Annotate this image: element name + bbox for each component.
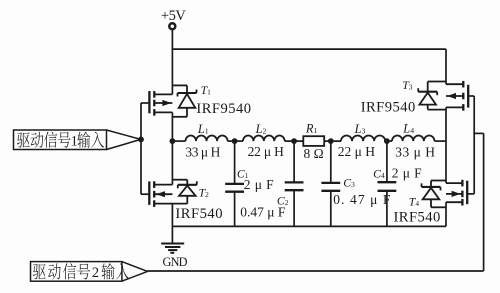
wire node to C1	[234, 141, 236, 184]
wire node to C3	[330, 141, 332, 183]
capacitor C4	[378, 181, 397, 183]
resistor R1	[303, 136, 324, 146]
wire T1 source down to node A	[171, 112, 173, 141]
junction C3 node	[328, 138, 334, 144]
wire T2 source down to ground	[171, 204, 173, 244]
wire gate bus right	[473, 96, 475, 194]
svg-text:22 μ H: 22 μ H	[338, 144, 375, 159]
svg-text:22 μ H: 22 μ H	[248, 144, 284, 159]
wire L4 to node B	[435, 140, 447, 142]
svg-text:IRF9540: IRF9540	[196, 101, 251, 117]
svg-text:2: 2	[92, 265, 99, 281]
wire T4 source down to bottom rail	[445, 202, 447, 226]
wire L3 to L4	[385, 140, 392, 142]
node drive-signal-1 input flag	[14, 130, 141, 150]
label 驱动信号1输入	[17, 132, 30, 147]
ground GND	[161, 243, 184, 245]
wire top +5V rail	[172, 48, 446, 50]
transistor T1 IRF9540	[149, 85, 196, 116]
svg-text:0.47 μ F: 0.47 μ F	[240, 204, 286, 219]
wire T3 drain down to node B	[445, 107, 447, 141]
junction C4 node	[384, 138, 390, 144]
inductor L2	[243, 136, 285, 142]
inductor L4	[392, 136, 434, 142]
svg-text:33 μ H: 33 μ H	[395, 144, 435, 159]
wire +5V down to T1 drain	[171, 30, 173, 95]
svg-text:IRF540: IRF540	[175, 206, 223, 222]
wire drive2 riser	[483, 133, 485, 271]
wire L1 to L2	[228, 140, 243, 142]
wire C2 to bottom rail	[293, 190, 295, 226]
svg-text:8 Ω: 8 Ω	[304, 146, 324, 161]
svg-text:2 μ F: 2 μ F	[392, 165, 422, 180]
wire bottom capacitor rail	[172, 225, 446, 227]
capacitor C3	[321, 182, 340, 184]
wire C3 to bottom rail	[330, 191, 332, 227]
wire top rail down to T3	[445, 49, 447, 84]
wire gate bus to drive2 riser	[474, 132, 483, 134]
wire T3 gate lead	[468, 95, 474, 97]
wire L2 to R1	[285, 140, 304, 142]
wire T4 gate lead	[467, 193, 474, 195]
wire T1 gate lead	[141, 102, 149, 104]
transistor T4 IRF540	[422, 180, 468, 208]
wire C1 to bottom rail	[234, 192, 236, 227]
transistor T2 IRF540	[149, 180, 197, 207]
svg-text:GND: GND	[163, 255, 188, 269]
junction C1 node	[232, 138, 238, 144]
svg-text:33 μ H: 33 μ H	[185, 145, 220, 160]
wire node to C2	[293, 141, 295, 182]
wire drive2 bottom run	[147, 270, 484, 272]
junction drive1 node	[138, 137, 144, 143]
wire node A down to T2 drain	[171, 141, 173, 185]
label 驱动信号2输入	[33, 264, 46, 279]
svg-text:0. 47 μ F: 0. 47 μ F	[333, 192, 391, 207]
inductor L3	[341, 135, 385, 141]
capacitor C2	[285, 181, 304, 183]
svg-text:2 μ F: 2 μ F	[244, 177, 274, 192]
wire R1 to L3	[324, 140, 341, 142]
wire gate bus left	[140, 103, 142, 194]
inductor L1	[185, 136, 227, 142]
svg-text:IRF9540: IRF9540	[361, 99, 416, 115]
svg-text:1: 1	[71, 134, 78, 150]
junction C2 node	[291, 138, 297, 144]
svg-text:+5V: +5V	[161, 8, 186, 24]
svg-text:IRF540: IRF540	[394, 210, 441, 226]
node drive-signal-2 input flag	[31, 262, 148, 282]
wire C4 to bottom rail	[386, 191, 388, 227]
wire T2 gate lead	[141, 193, 149, 195]
wire node A to L1	[172, 140, 185, 142]
wire node to C4	[386, 141, 388, 182]
junction node A	[170, 138, 176, 144]
capacitor C1	[225, 183, 244, 185]
transistor T3 IRF9540	[418, 81, 468, 111]
wire node B down to T4 drain	[445, 141, 447, 183]
